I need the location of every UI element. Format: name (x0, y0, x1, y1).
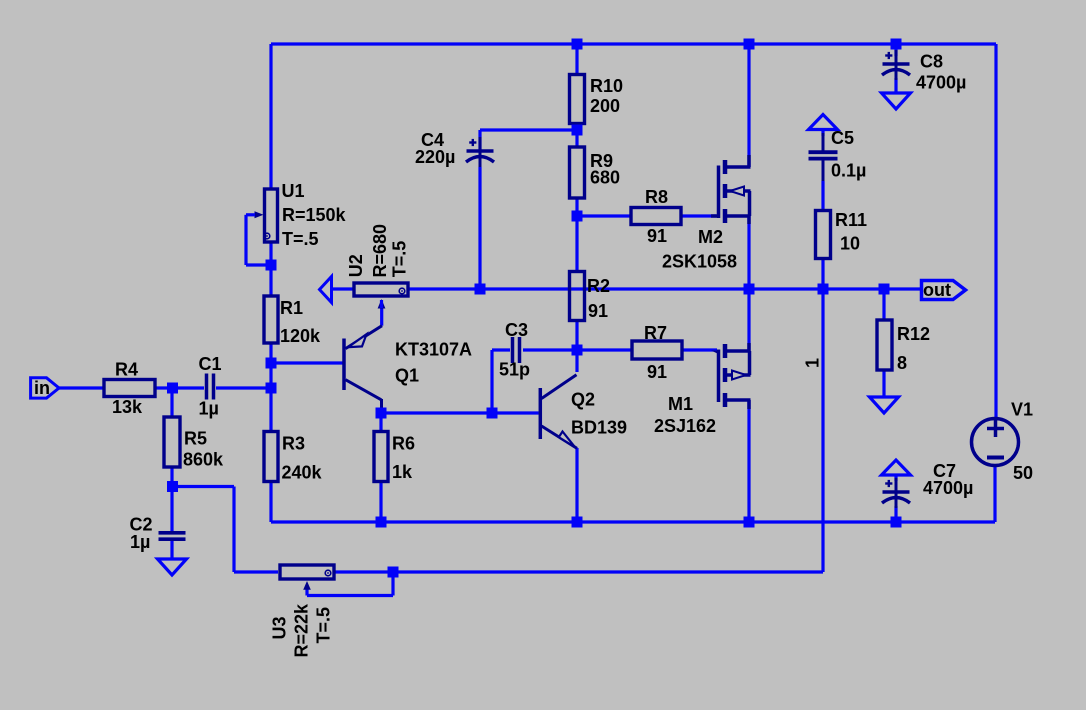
svg-text:1k: 1k (392, 462, 413, 482)
svg-text:R=22k: R=22k (291, 603, 311, 658)
svg-text:51p: 51p (499, 360, 530, 380)
svg-text:0.1µ: 0.1µ (831, 161, 866, 181)
svg-text:1: 1 (803, 358, 823, 368)
svg-text:M1: M1 (668, 394, 693, 414)
svg-text:8: 8 (897, 353, 907, 373)
svg-text:R2: R2 (587, 276, 610, 296)
svg-text:C3: C3 (505, 320, 528, 340)
svg-text:M2: M2 (698, 227, 723, 247)
svg-text:R12: R12 (897, 324, 930, 344)
svg-text:T=.5: T=.5 (313, 607, 333, 644)
svg-text:U3: U3 (269, 616, 289, 639)
svg-text:91: 91 (647, 226, 667, 246)
svg-text:U1: U1 (282, 181, 305, 201)
svg-text:R7: R7 (644, 323, 667, 343)
svg-text:T=.5: T=.5 (282, 229, 319, 249)
svg-text:10: 10 (840, 234, 860, 254)
svg-text:240k: 240k (282, 463, 323, 483)
svg-text:BD139: BD139 (571, 418, 627, 438)
svg-text:220µ: 220µ (415, 147, 455, 167)
svg-text:4700µ: 4700µ (923, 478, 973, 498)
svg-text:200: 200 (590, 96, 620, 116)
svg-text:U2: U2 (346, 254, 366, 277)
svg-text:91: 91 (647, 362, 667, 382)
svg-text:50: 50 (1013, 463, 1033, 483)
svg-text:R3: R3 (282, 434, 305, 454)
svg-text:Q2: Q2 (571, 390, 595, 410)
svg-text:out: out (923, 280, 951, 300)
svg-text:680: 680 (590, 168, 620, 188)
svg-text:C1: C1 (199, 354, 222, 374)
svg-text:R=150k: R=150k (282, 205, 347, 225)
svg-text:R8: R8 (645, 187, 668, 207)
svg-text:in: in (34, 378, 50, 398)
svg-text:2SJ162: 2SJ162 (654, 416, 716, 436)
svg-text:860k: 860k (183, 450, 224, 470)
svg-text:C8: C8 (920, 52, 943, 72)
svg-text:R=680: R=680 (370, 224, 390, 278)
svg-text:120k: 120k (280, 326, 321, 346)
svg-text:13k: 13k (112, 397, 143, 417)
svg-text:R6: R6 (392, 434, 415, 454)
svg-text:R5: R5 (184, 429, 207, 449)
svg-text:R11: R11 (835, 210, 867, 230)
svg-text:R1: R1 (280, 298, 303, 318)
svg-text:V1: V1 (1011, 400, 1033, 420)
svg-text:KT3107A: KT3107A (395, 340, 472, 360)
svg-text:R10: R10 (590, 76, 623, 96)
svg-text:91: 91 (588, 301, 608, 321)
svg-text:Q1: Q1 (395, 366, 419, 386)
svg-text:2SK1058: 2SK1058 (662, 252, 737, 272)
svg-text:4700µ: 4700µ (916, 73, 966, 93)
svg-text:1µ: 1µ (130, 532, 150, 552)
svg-text:C5: C5 (831, 128, 854, 148)
svg-text:R4: R4 (115, 360, 138, 380)
svg-text:T=.5: T=.5 (389, 241, 409, 278)
svg-text:1µ: 1µ (199, 399, 219, 419)
